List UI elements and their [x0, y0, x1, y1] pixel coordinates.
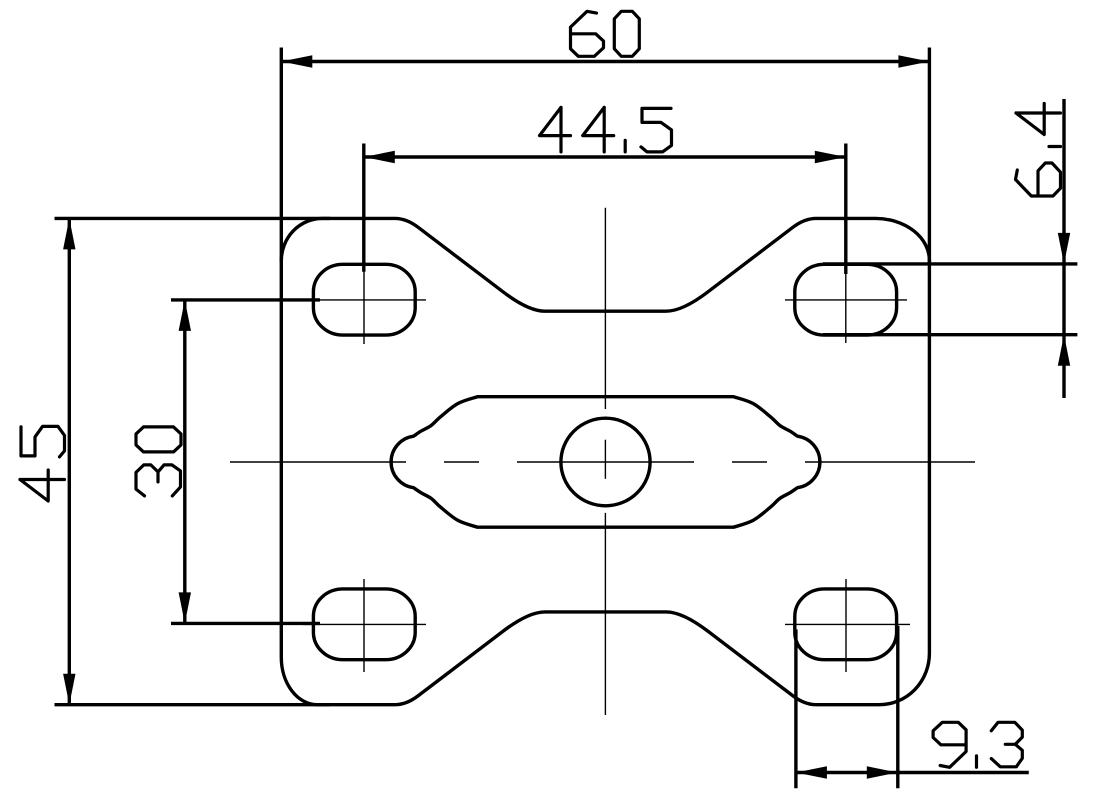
- label 45 rotated: [20, 426, 65, 501]
- slot top-right: [795, 264, 897, 335]
- dimension line 44.5: [364, 155, 846, 158]
- dimension line 9.3: [796, 771, 1029, 774]
- label 44.5: [540, 107, 672, 151]
- crosshair slot TR horizontal: [785, 299, 907, 301]
- extension line 30 top: [171, 298, 320, 301]
- label 60: [571, 11, 640, 56]
- centerline horizontal: [230, 461, 975, 463]
- extension line 44.5 right: [844, 144, 847, 275]
- dimension line 45: [68, 218, 71, 704]
- extension line 6.4 top: [823, 262, 1077, 265]
- arrow 6.4 lower: [1058, 335, 1070, 366]
- slot bottom-right: [795, 589, 897, 660]
- label 9.3: [933, 722, 1022, 767]
- dimension line 30: [183, 300, 186, 624]
- center circle: [561, 418, 650, 506]
- extension line 45 top: [55, 217, 331, 220]
- crosshair slot BR horizontal: [785, 623, 910, 625]
- extension line 45 bottom: [55, 703, 331, 706]
- arrow 60 left: [281, 55, 312, 67]
- extension line 60 right: [928, 48, 931, 266]
- arrow 30 top: [179, 300, 191, 331]
- arrow 9.3 right: [867, 766, 898, 778]
- label 6.4 rotated: [1016, 104, 1061, 197]
- crosshair slot TL vertical: [363, 271, 365, 344]
- crosshair slot TR vertical: [845, 273, 847, 343]
- plate outline: [281, 218, 929, 704]
- arrow 45 top: [63, 218, 75, 249]
- dimension line 6.4: [1062, 99, 1065, 398]
- extension line 60 left: [280, 48, 283, 263]
- arrow 6.4 upper: [1058, 233, 1070, 264]
- center cutout: [391, 397, 820, 528]
- extension line 6.4 bottom: [823, 333, 1077, 336]
- extension line 9.3 right: [896, 626, 899, 788]
- arrow 44.5 left: [364, 151, 395, 163]
- arrow 45 bottom: [63, 674, 75, 705]
- arrow 30 bottom: [179, 592, 191, 623]
- arrow 60 right: [898, 55, 929, 67]
- slot top-left: [313, 264, 415, 335]
- extension line 30 bottom: [171, 622, 320, 625]
- extension line 44.5 left: [362, 144, 365, 272]
- crosshair slot BL horizontal: [303, 623, 426, 625]
- crosshair slot BR vertical: [845, 579, 847, 672]
- extension line 9.3 left: [794, 629, 797, 788]
- slot bottom-left: [313, 589, 415, 660]
- crosshair slot BL vertical: [363, 579, 365, 672]
- centerline vertical: [604, 208, 606, 715]
- arrow 44.5 right: [815, 151, 846, 163]
- label 30 rotated: [136, 427, 181, 496]
- arrow 9.3 left: [796, 766, 827, 778]
- crosshair slot TL horizontal: [303, 299, 426, 301]
- dimension line 60: [281, 60, 929, 63]
